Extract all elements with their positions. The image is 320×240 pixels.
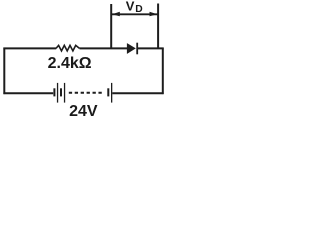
battery cell 2 short plate (60, 88, 62, 96)
wire: right vertical edge of loop (162, 48, 164, 95)
wire: left vertical edge of loop (3, 48, 5, 95)
battery cell 1 long (positive) plate (57, 83, 58, 103)
wire: top horizontal from diode cathode to right corner (138, 47, 164, 49)
battery dashed continuation (6 dashes) (69, 92, 102, 94)
wire: bottom horizontal from left corner to battery (3, 92, 53, 94)
battery E 24V : cell 1 short (negative) plate (53, 88, 55, 96)
right arrowhead pointing right (150, 12, 158, 17)
wire: bottom horizontal from battery to right corner (112, 92, 163, 94)
diode D (triangle, pointing right) (127, 43, 136, 54)
svg-text:2.4kΩ: 2.4kΩ (48, 55, 92, 72)
diode cathode bar (136, 43, 138, 55)
svg-text:D: D (135, 4, 142, 15)
svg-text:24V: 24V (69, 103, 98, 119)
battery cell 3 long plate (111, 83, 112, 103)
dimension line for VD (111, 13, 158, 15)
wire: top horizontal from resistor to diode anode (80, 47, 128, 49)
battery cell 3 short plate (107, 88, 109, 96)
resistor R 2.4k zigzag (56, 45, 80, 51)
battery cell 2 long plate (64, 83, 65, 103)
left arrowhead pointing left (112, 12, 120, 17)
node tick: right measurement tick above right corner (157, 4, 159, 49)
svg-text:V: V (126, 0, 135, 14)
node tick: left measurement tick above diode anode (110, 4, 112, 48)
wire: top horizontal from left corner to resistor (3, 47, 56, 49)
